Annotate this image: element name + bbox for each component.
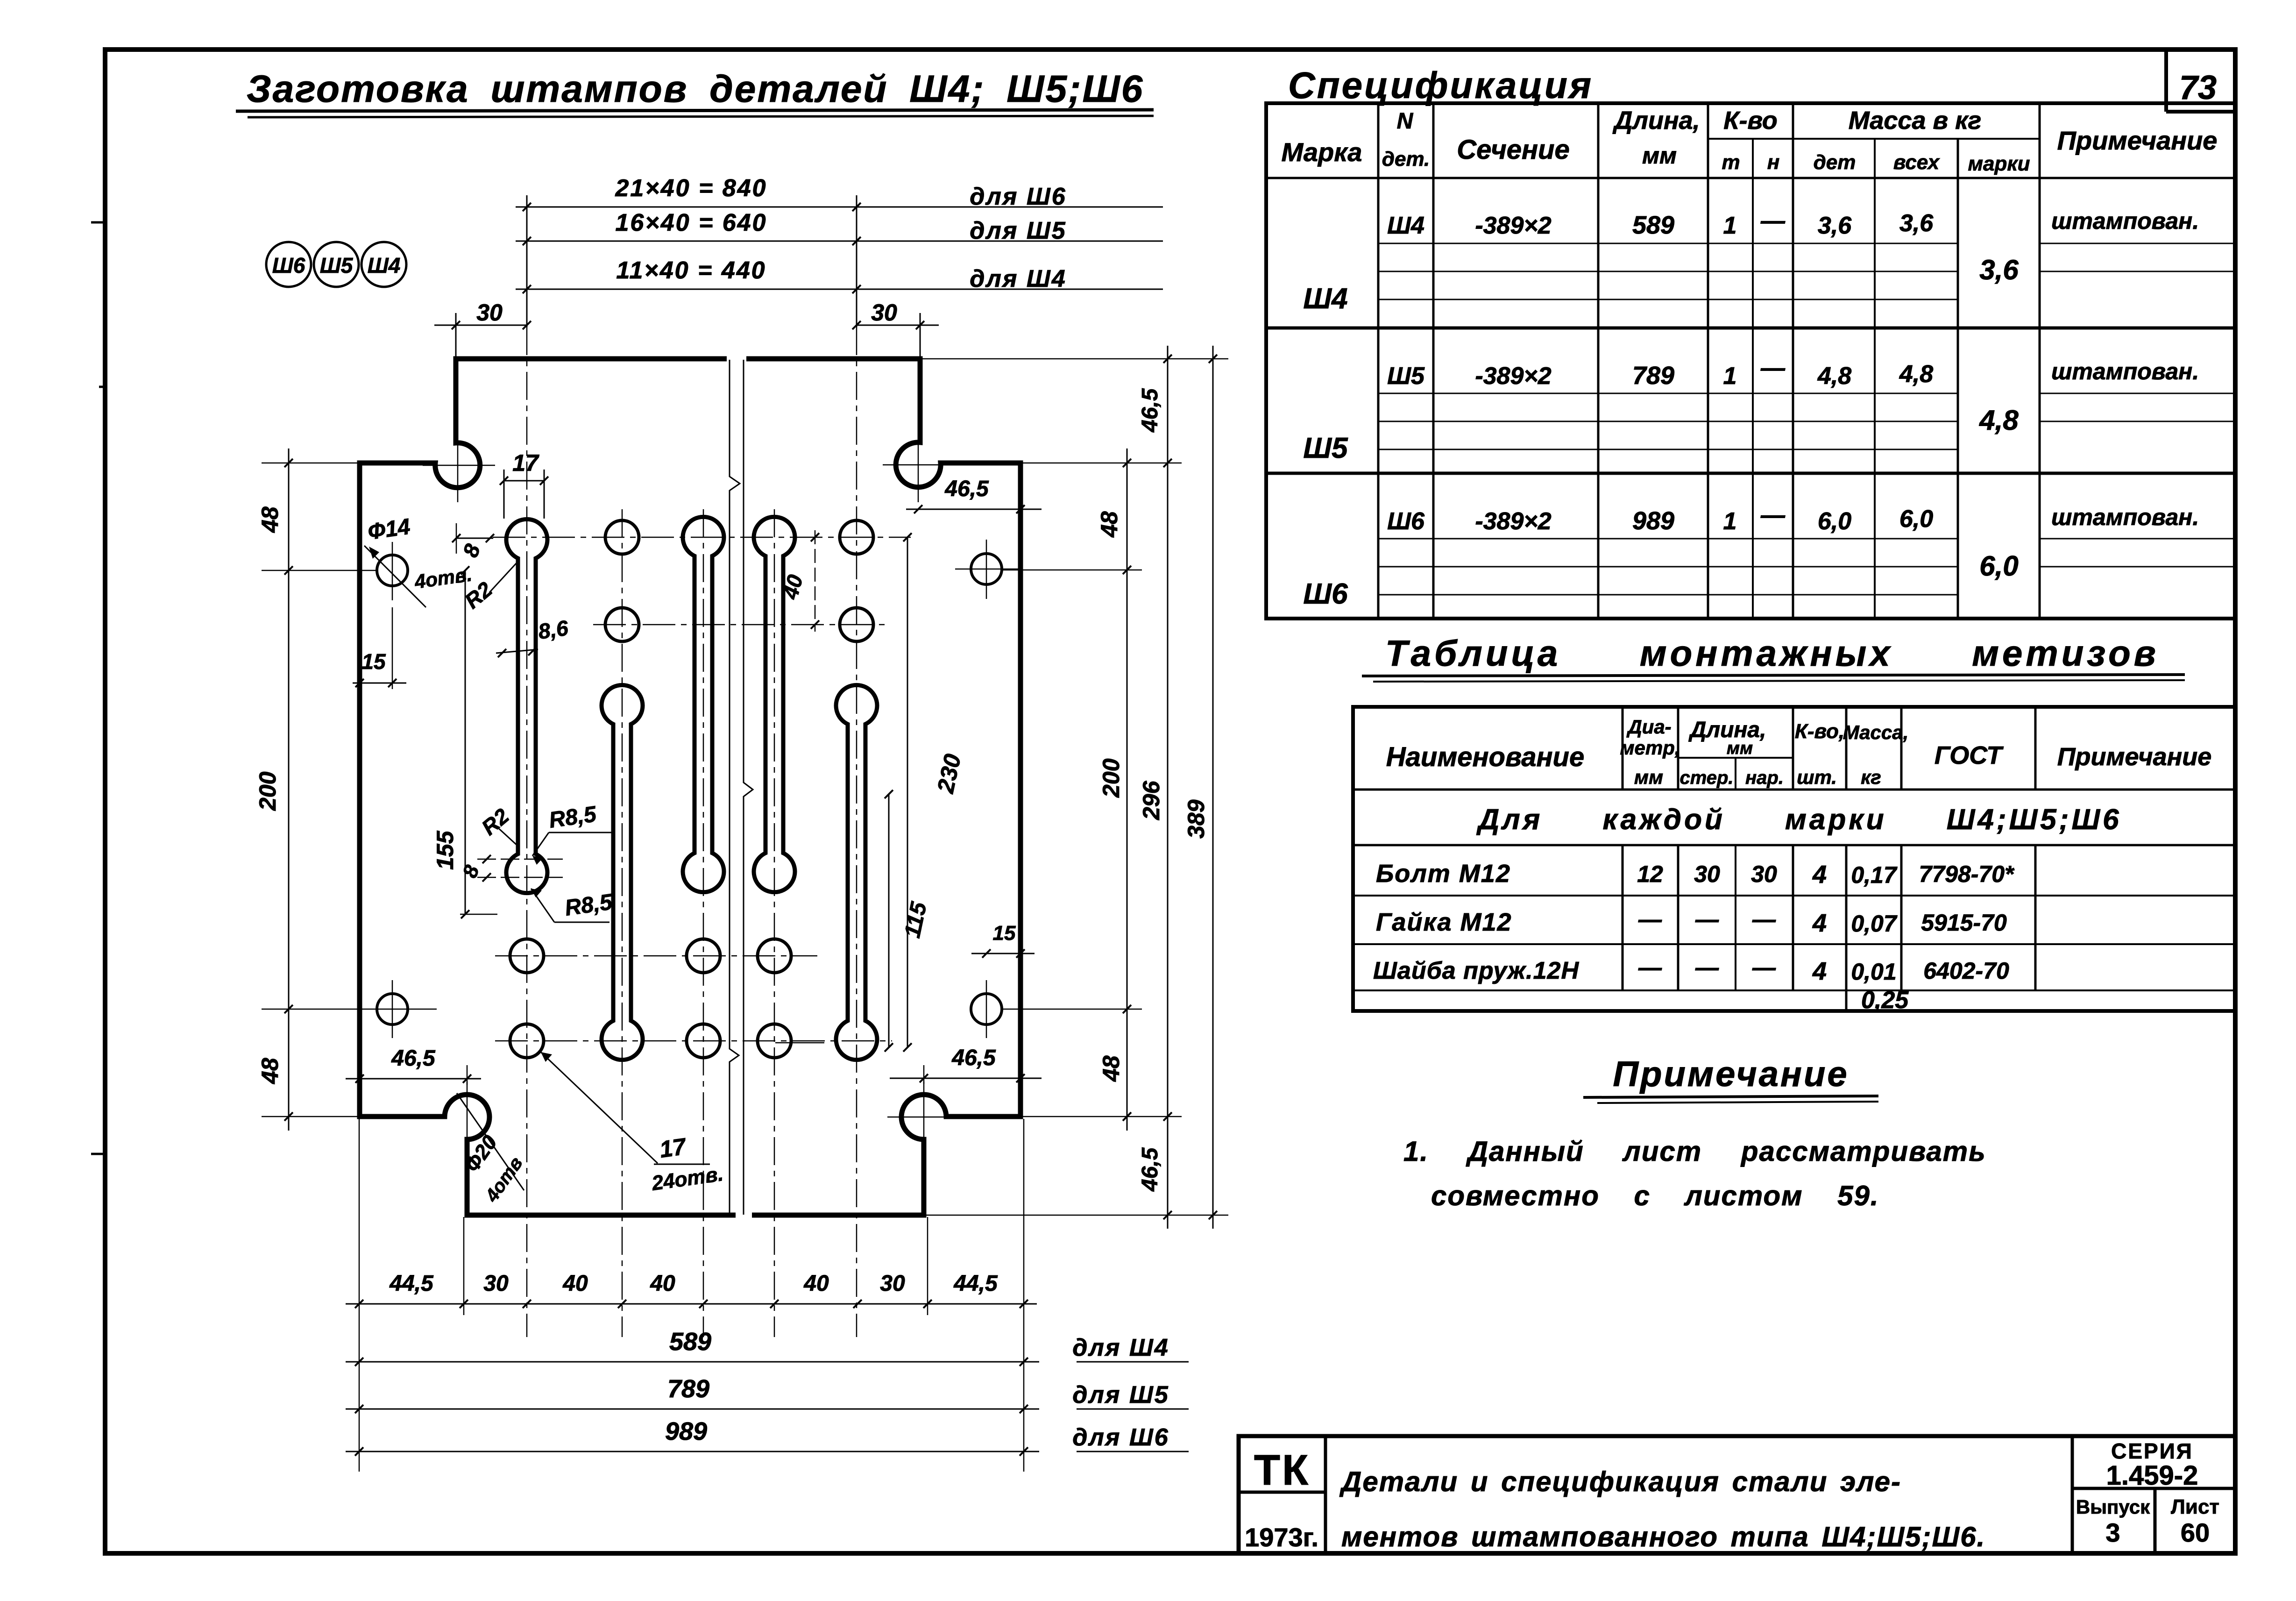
svg-text:6402-70: 6402-70 (1923, 958, 2009, 984)
svg-text:штампован.: штампован. (2051, 208, 2199, 234)
grid hole c4 row4 (758, 1024, 791, 1058)
dimension 40 between rows (815, 530, 816, 632)
svg-text:—: — (1695, 954, 1719, 981)
svg-text:17: 17 (512, 450, 539, 476)
break line right (744, 360, 753, 1215)
svg-text:Выпуск: Выпуск (2076, 1496, 2150, 1518)
grid hole c2 row1 (605, 520, 639, 554)
hole F14 bottom right (971, 994, 1002, 1025)
svg-text:73: 73 (2179, 69, 2217, 107)
svg-text:989: 989 (665, 1417, 707, 1445)
spec sub row lines block 3 (1378, 538, 1958, 540)
svg-text:200: 200 (255, 771, 281, 811)
svg-text:0,01: 0,01 (1851, 959, 1896, 985)
svg-text:Ш5: Ш5 (1303, 432, 1348, 464)
svg-text:для Ш6: для Ш6 (970, 183, 1066, 210)
plate outline left half with corner relief ears (360, 359, 736, 1215)
grid hole c1 row3 (510, 939, 544, 973)
svg-text:40: 40 (562, 1271, 588, 1296)
svg-text:для Ш4: для Ш4 (970, 265, 1066, 292)
dimension 16x40=640 for Ш5 (516, 241, 1163, 242)
svg-text:Ш5: Ш5 (320, 253, 354, 278)
svg-text:40: 40 (803, 1271, 829, 1296)
svg-text:1973г.: 1973г. (1245, 1523, 1318, 1552)
svg-text:30: 30 (871, 299, 897, 326)
svg-text:стер.: стер. (1679, 768, 1733, 788)
dimension 21x40=840 for Ш6 (516, 206, 1163, 208)
svg-text:48: 48 (257, 506, 283, 533)
svg-text:метр,: метр, (1620, 737, 1680, 759)
svg-text:—: — (1638, 954, 1662, 981)
metiz table frame (1353, 707, 2235, 1011)
svg-text:48: 48 (1098, 1055, 1124, 1082)
svg-text:46,5: 46,5 (1138, 1147, 1162, 1192)
svg-text:4,8: 4,8 (1899, 361, 1933, 388)
svg-text:Примечание: Примечание (2057, 126, 2218, 155)
svg-text:мм: мм (1727, 739, 1753, 758)
svg-text:48: 48 (257, 1058, 283, 1084)
dimension 589 for Ш4 (346, 1361, 1039, 1363)
grid hole c3 row3 (687, 939, 720, 973)
svg-text:155: 155 (432, 830, 458, 870)
svg-text:589: 589 (669, 1328, 711, 1356)
svg-text:200: 200 (1098, 758, 1124, 798)
svg-text:для Ш4: для Ш4 (1072, 1334, 1169, 1361)
svg-text:44,5: 44,5 (953, 1271, 998, 1296)
metiz column lines (1622, 707, 1624, 790)
row centerline y2228 (495, 1040, 892, 1042)
svg-text:Ш4: Ш4 (1303, 283, 1347, 315)
extension line col5 top (856, 195, 857, 327)
slot S5 (836, 685, 877, 1060)
svg-text:12: 12 (1637, 861, 1663, 887)
label F20 4otv with leader (457, 1093, 524, 1190)
svg-text:1: 1 (1723, 212, 1737, 239)
column centerline c2 (622, 509, 623, 1337)
svg-text:7798-70*: 7798-70* (1919, 861, 2015, 887)
spec sub row lines block 1 (1378, 243, 1958, 244)
page number box 73 (2164, 50, 2168, 112)
svg-text:ментов штампованного типа Ш: ментов штампованного типа Ш4;Ш5;Ш6. (1341, 1521, 1985, 1552)
svg-text:30: 30 (476, 299, 503, 326)
svg-text:Шайба пруж.12Н: Шайба пруж.12Н (1373, 957, 1579, 984)
svg-text:Марка: Марка (1282, 137, 1362, 167)
svg-text:21×40 = 840: 21×40 = 840 (615, 175, 767, 202)
svg-text:17: 17 (658, 1133, 688, 1163)
plate outline right half with corner relief ears (746, 359, 1020, 1215)
hole F14 bottom left (377, 994, 408, 1025)
svg-text:296: 296 (1138, 780, 1164, 820)
row centerline y1150 (493, 537, 911, 538)
svg-text:0,25: 0,25 (1861, 987, 1909, 1014)
slot S2 (602, 685, 643, 1060)
svg-text:—: — (1760, 502, 1786, 529)
centerline cross F14 top right (986, 540, 987, 599)
svg-text:Примечание: Примечание (2057, 743, 2212, 771)
svg-text:48: 48 (1096, 511, 1122, 538)
svg-text:6,0: 6,0 (1979, 550, 2018, 582)
svg-text:3,6: 3,6 (1979, 254, 2019, 285)
svg-text:Заготовка штампов деталей Ш: Заготовка штампов деталей Ш4; Ш5;Ш6 (247, 68, 1144, 110)
svg-text:15: 15 (993, 922, 1016, 945)
grid hole c3 row4 (687, 1024, 720, 1058)
svg-text:389: 389 (1183, 799, 1209, 839)
specification table frame (1266, 103, 2235, 619)
slot S4 (754, 517, 795, 892)
column centerline c3 (703, 509, 704, 1337)
svg-text:Таблица монтажных метизов: Таблица монтажных метизов (1385, 633, 2159, 674)
svg-text:-389×2: -389×2 (1475, 508, 1551, 535)
dimension 15 bottom right (971, 953, 1035, 954)
svg-text:Детали и спецификация стали: Детали и спецификация стали эле- (1339, 1466, 1901, 1497)
svg-text:789: 789 (667, 1375, 709, 1403)
svg-text:6,0: 6,0 (1818, 508, 1851, 535)
hole F14 top right (971, 554, 1002, 584)
ear centerline top left (457, 430, 459, 502)
svg-text:30: 30 (1751, 861, 1777, 887)
svg-text:46,5: 46,5 (951, 1046, 996, 1070)
dimension 155 vertical (465, 570, 466, 914)
grid hole c2 row2 (605, 608, 639, 641)
svg-text:нар.: нар. (1745, 768, 1784, 788)
fold tick marks on left border (91, 221, 106, 224)
svg-text:Ш6: Ш6 (272, 253, 305, 278)
svg-text:всех: всех (1893, 151, 1940, 174)
svg-text:Диа-: Диа- (1626, 716, 1671, 738)
svg-text:4: 4 (1812, 909, 1827, 937)
dimension 989 for Ш6 (346, 1451, 1039, 1452)
slot S3 (683, 517, 724, 892)
dimension 30 top right (857, 325, 939, 326)
svg-text:т: т (1722, 151, 1740, 174)
svg-text:Ш6: Ш6 (1387, 508, 1425, 535)
svg-text:46,5: 46,5 (391, 1046, 436, 1071)
svg-text:ТК: ТК (1254, 1446, 1310, 1494)
row centerline y1337 (593, 624, 890, 626)
svg-text:Примечание: Примечание (1613, 1054, 1849, 1094)
svg-text:Лист: Лист (2171, 1495, 2219, 1518)
svg-text:4,8: 4,8 (1817, 363, 1851, 390)
svg-text:989: 989 (1632, 507, 1674, 535)
svg-text:1. Данный лист рассматривать: 1. Данный лист рассматривать (1403, 1136, 1986, 1167)
column centerline c5 (856, 327, 857, 1337)
svg-text:штампован.: штампован. (2051, 358, 2199, 384)
grid hole c5 row1 (840, 520, 873, 554)
svg-text:1.459-2: 1.459-2 (2106, 1460, 2198, 1491)
svg-text:30: 30 (1694, 861, 1720, 887)
column centerline c4 (774, 509, 775, 1337)
dimension 15 left (353, 683, 406, 684)
svg-text:Масса,: Масса, (1843, 721, 1909, 743)
dimension 11x40=440 for Ш4 (516, 289, 1163, 290)
svg-text:1: 1 (1723, 363, 1737, 390)
svg-text:N: N (1397, 109, 1414, 134)
dimension 230 vertical (907, 537, 908, 1047)
row centerline y2046 (495, 955, 817, 957)
right dimension chain 48/200/48 (1127, 448, 1128, 1131)
svg-text:Ш6: Ш6 (1303, 578, 1348, 610)
svg-text:—: — (1752, 954, 1776, 981)
grid hole c1 row4 (510, 1024, 544, 1058)
title block frame (1239, 1436, 2235, 1553)
svg-text:4: 4 (1812, 861, 1827, 889)
svg-text:—: — (1638, 906, 1662, 932)
svg-text:Спецификация: Спецификация (1288, 64, 1593, 106)
dimension 46,5 bottom right horizontal (890, 1078, 1042, 1079)
svg-text:Для каждой марки Ш4;Ш5;Ш6: Для каждой марки Ш4;Ш5;Ш6 (1476, 804, 2121, 836)
column centerline c1 (526, 327, 528, 1337)
svg-text:дет.: дет. (1382, 148, 1430, 171)
svg-text:Ш5: Ш5 (1387, 363, 1425, 390)
svg-text:30: 30 (880, 1271, 905, 1296)
svg-text:Длина,: Длина, (1612, 107, 1700, 135)
svg-text:0,17: 0,17 (1851, 862, 1898, 888)
svg-text:—: — (1695, 906, 1719, 932)
bottom extension verticals (359, 1119, 360, 1472)
ear centerline top right (918, 430, 919, 502)
svg-text:для Ш5: для Ш5 (970, 217, 1066, 244)
ear centerline bottom left (467, 1082, 468, 1154)
svg-text:589: 589 (1632, 211, 1674, 239)
svg-text:—: — (1760, 355, 1786, 382)
extension line col1 top (526, 195, 528, 327)
dimension 789 for Ш5 (346, 1409, 1039, 1410)
svg-text:Наименование: Наименование (1386, 742, 1584, 772)
svg-text:ГОСТ: ГОСТ (1935, 741, 2004, 769)
svg-text:дет: дет (1814, 151, 1856, 174)
svg-text:мм: мм (1642, 142, 1677, 169)
svg-text:30: 30 (483, 1271, 509, 1296)
svg-text:6,0: 6,0 (1899, 505, 1933, 533)
svg-text:0,07: 0,07 (1851, 911, 1898, 937)
grid hole c4 row3 (758, 939, 791, 973)
svg-text:11×40 = 440: 11×40 = 440 (616, 257, 766, 284)
svg-text:4,8: 4,8 (1979, 405, 2019, 436)
svg-text:—: — (1760, 207, 1786, 235)
marker circle Ш4 (361, 242, 406, 287)
svg-text:4: 4 (1812, 957, 1827, 985)
svg-text:3,6: 3,6 (1818, 212, 1852, 239)
svg-text:марки: марки (1968, 152, 2030, 175)
svg-text:для Ш5: для Ш5 (1072, 1381, 1169, 1409)
svg-text:мм: мм (1634, 766, 1663, 788)
dimension 8 at slot bottom bulb (477, 859, 563, 860)
dimension 46,5 top right horizontal (906, 509, 1042, 510)
centerline cross F14 bottom left (392, 980, 393, 1038)
svg-text:Ш4: Ш4 (368, 253, 401, 278)
svg-text:-389×2: -389×2 (1475, 363, 1551, 390)
marker circle Ш6 (266, 242, 311, 287)
svg-text:К-во: К-во (1723, 107, 1777, 135)
svg-text:5915-70: 5915-70 (1921, 910, 2007, 936)
dimension 389 line right (1212, 346, 1214, 1229)
dimension 115 vertical (888, 794, 890, 1047)
left dimension chain line (288, 448, 290, 1131)
spec sub row lines block 2 (1378, 393, 1958, 394)
svg-text:н: н (1767, 151, 1780, 174)
svg-text:Сечение: Сечение (1457, 135, 1570, 165)
svg-text:К-во,: К-во, (1795, 720, 1844, 743)
svg-text:для Ш6: для Ш6 (1072, 1424, 1169, 1451)
svg-text:СЕРИЯ: СЕРИЯ (2111, 1439, 2193, 1463)
extension lines left (262, 463, 362, 464)
ear centerline bottom right (923, 1082, 925, 1154)
centerline cross F14 bottom right (986, 980, 987, 1038)
svg-text:46,5: 46,5 (1138, 388, 1162, 433)
svg-text:шт.: шт. (1797, 766, 1837, 788)
svg-text:Ш4: Ш4 (1387, 212, 1424, 239)
svg-text:штампован.: штампован. (2051, 504, 2199, 530)
svg-text:3,6: 3,6 (1899, 210, 1934, 237)
svg-text:15: 15 (361, 649, 386, 674)
svg-text:1: 1 (1723, 508, 1737, 535)
svg-text:8,6: 8,6 (537, 615, 570, 643)
marker circle Ш5 (314, 242, 359, 287)
break line left (730, 360, 740, 1215)
svg-text:46,5: 46,5 (944, 477, 989, 501)
svg-text:3: 3 (2105, 1518, 2120, 1547)
svg-text:789: 789 (1632, 362, 1674, 390)
grid hole c5 row2 (840, 608, 873, 641)
svg-text:—: — (1752, 906, 1776, 932)
svg-text:совместно с листом 59.: совместно с листом 59. (1431, 1180, 1879, 1211)
svg-text:16×40 = 640: 16×40 = 640 (615, 209, 767, 236)
dimension 30 top left (434, 325, 527, 326)
svg-text:44,5: 44,5 (389, 1271, 434, 1296)
svg-text:Масса в кг: Масса в кг (1849, 107, 1982, 135)
centerline cross F14 top left (392, 542, 393, 600)
svg-text:кг: кг (1861, 766, 1881, 788)
dimension 46,5 bottom left horizontal (346, 1078, 481, 1080)
hole F14 top left (377, 555, 408, 586)
svg-text:Болт М12: Болт М12 (1376, 860, 1511, 888)
dimension 17 slot width (504, 480, 544, 482)
title double underline (236, 110, 1154, 111)
svg-text:-389×2: -389×2 (1475, 212, 1551, 239)
svg-text:60: 60 (2181, 1518, 2210, 1547)
dimension 8 at slot top (456, 538, 493, 539)
svg-text:40: 40 (650, 1271, 675, 1296)
dimension 46,5 / 296 / 46,5 line right (1167, 346, 1169, 1229)
right extension lines (922, 358, 1228, 360)
svg-text:Гайка М12: Гайка М12 (1376, 908, 1512, 936)
bottom chain dimension line 44,5/30/40/40/40/30/44,5 (346, 1303, 1037, 1305)
slot S1 (506, 519, 547, 893)
